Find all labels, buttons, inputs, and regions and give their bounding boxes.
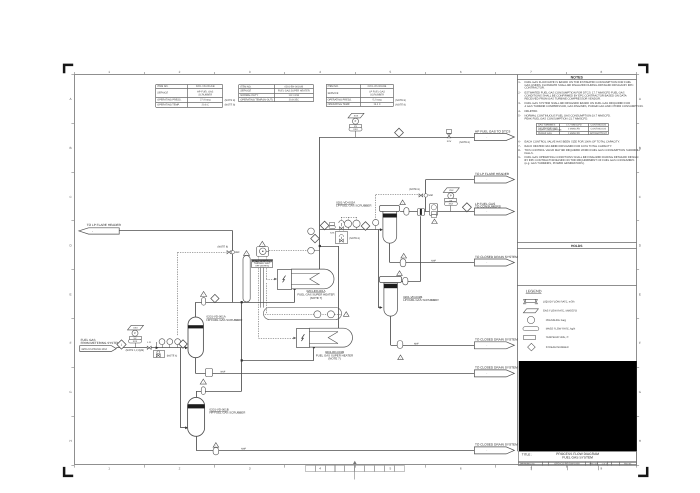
company logo redaction block — [519, 361, 637, 451]
svg-text:6: 6 — [460, 70, 462, 74]
svg-text:TO CLOSED DRAIN SYSTEM: TO CLOSED DRAIN SYSTEM — [475, 338, 518, 342]
vessel VD-001A HP fuel gas scrubber A — [188, 317, 203, 358]
svg-text:(e.g. GAS TURBINES, POWER GENE: (e.g. GAS TURBINES, POWER GENERATORS). — [525, 162, 585, 165]
pipe: scrubber B feed drop — [180, 348, 182, 428]
svg-text:OPERATING PRESS.: OPERATING PRESS. — [157, 99, 181, 102]
svg-text:ITEM NO.: ITEM NO. — [157, 85, 168, 88]
svg-text:PEAK FUEL GAS CONSUMPTION :21.: PEAK FUEL GAS CONSUMPTION :21.7 MMSCFD. — [525, 118, 589, 121]
svg-text:(NOTE 8): (NOTE 8) — [225, 99, 236, 102]
svg-text:LP FUEL GAS SCRUBBER: LP FUEL GAS SCRUBBER — [336, 204, 371, 208]
DTCS shutdown valve — [447, 130, 452, 134]
spec break — [156, 342, 158, 348]
signal: inlet PIC to flare bypass PCV — [177, 252, 179, 336]
letdown PIC/PI circles — [344, 220, 351, 227]
svg-text:OPERATING TEMP.: OPERATING TEMP. — [328, 103, 351, 106]
pipe: HP scrubber A drain to closed drain — [195, 357, 197, 373]
svg-text:SHT. NO.: SHT. NO. — [590, 463, 599, 466]
table fuel gas super heater — [239, 84, 314, 86]
svg-text:SERVICE: SERVICE — [240, 90, 251, 93]
svg-text:7-: 7- — [518, 145, 521, 148]
inlet PCV in box (NOTE 4) — [154, 351, 165, 358]
off-page arrow LP FUEL GAS TO CONSUMERS — [474, 208, 514, 215]
svg-text:20.8 C: 20.8 C — [202, 103, 209, 106]
svg-text:(NOTE 6): (NOTE 6) — [459, 141, 470, 144]
svg-text:LP FUEL GAS SCRUBBER: LP FUEL GAS SCRUBBER — [403, 298, 438, 302]
pipe: heater B inlet — [242, 360, 314, 362]
svg-text:(NOTE 4): (NOTE 4) — [167, 354, 178, 357]
svg-text:(NOTE 8): (NOTE 8) — [225, 104, 236, 107]
off-page arrow TO CLOSED DRAIN SYSTEM — [474, 259, 514, 266]
svg-text:GAS FLOW RATE, MMSCFD: GAS FLOW RATE, MMSCFD — [543, 310, 577, 313]
svg-text:(NOTE 1,2,3)(M): (NOTE 1,2,3)(M) — [126, 349, 145, 352]
svg-text:MASS FLOW RATE, kg/h: MASS FLOW RATE, kg/h — [546, 328, 576, 331]
off-page arrow TO CLOSED DRAIN SYSTEM — [474, 370, 514, 377]
svg-text:Rev.01: Rev.01 — [624, 463, 632, 466]
svg-text:5.2 barg: 5.2 barg — [372, 99, 382, 102]
letdown bypass box — [336, 232, 348, 244]
svg-text:5: 5 — [390, 467, 392, 471]
svg-text:XXV: XXV — [447, 140, 452, 143]
svg-text:6-: 6- — [518, 141, 521, 144]
svg-text:EACH HEATER HAS BEEN DESIGNED: EACH HEATER HAS BEEN DESIGNED FOR 100% T… — [525, 145, 613, 148]
svg-text:2-: 2- — [518, 91, 521, 94]
svg-text:ITEM NO.: ITEM NO. — [240, 85, 251, 88]
svg-text:NOTES: NOTES — [571, 75, 584, 79]
svg-text:FALLS.: FALLS. — [525, 152, 534, 155]
pipe: LP scrubber B drain to closed drain — [390, 316, 392, 345]
drawing border frame — [75, 75, 637, 465]
pipe: HP scrubber A feed entry — [185, 346, 188, 349]
LP scrubber B outlet valve — [397, 271, 403, 276]
svg-text:ITEM NO.: ITEM NO. — [328, 85, 339, 88]
svg-text:TO CONSUMERS: TO CONSUMERS — [475, 204, 501, 208]
svg-text:4: 4 — [319, 467, 321, 471]
svg-text:2: 2 — [179, 70, 181, 74]
svg-text:XXX: XXX — [353, 128, 358, 131]
svg-text:GAS TURBINES: GAS TURBINES — [538, 124, 556, 127]
svg-text:0201-VD-001A/B: 0201-VD-001A/B — [196, 85, 215, 88]
svg-text:GPD-CO-PR-DW-1004: GPD-CO-PR-DW-1004 — [82, 348, 108, 351]
svg-text:TO CLOSED DRAIN SYSTEM: TO CLOSED DRAIN SYSTEM — [475, 255, 518, 259]
svg-text:27.9 barg: 27.9 barg — [200, 99, 211, 102]
svg-text:NORMAL DUTY: NORMAL DUTY — [240, 94, 258, 97]
svg-text:9-: 9- — [518, 156, 521, 159]
graphic scale bar — [306, 466, 316, 472]
svg-text:F: F — [70, 341, 72, 345]
svg-text:NNF: NNF — [241, 447, 246, 450]
stream diamond HP header — [395, 128, 404, 137]
off-page arrow HP FUEL GAS TO DTCS — [474, 134, 514, 141]
svg-text:NNF: NNF — [235, 251, 240, 254]
svg-text:START CONSUMPTION: START CONSUMPTION — [538, 129, 562, 132]
LP-B drain valve — [397, 341, 403, 349]
svg-text:4-: 4- — [518, 110, 521, 113]
TDIC controller — [259, 241, 265, 246]
stream diamond 1 — [117, 340, 126, 349]
svg-text:3: 3 — [249, 467, 251, 471]
pipe: LP flare header line (left) — [119, 230, 233, 232]
svg-text:HP FUEL GAS SCRUBBER: HP FUEL GAS SCRUBBER — [207, 318, 243, 322]
svg-text:EACH CONTROL VALVE HAS BEEN SI: EACH CONTROL VALVE HAS BEEN SIZE FOR 100… — [525, 141, 621, 144]
stream diamond above overhead A — [211, 294, 219, 302]
svg-text:4: 4 — [319, 70, 321, 74]
holds panel — [517, 242, 637, 244]
LP consumers XV valve — [430, 204, 438, 216]
svg-text:TITLE :: TITLE : — [522, 453, 532, 457]
svg-text:1-: 1- — [518, 81, 521, 84]
svg-text:SCRUBBER: SCRUBBER — [370, 93, 384, 96]
pipe: LP scrubber A drain to closed drain — [389, 243, 391, 263]
svg-text:B: B — [70, 146, 72, 150]
pipe: vertical main HP gas riser (heater A outlet to HP header) — [319, 137, 321, 269]
svg-text:CONTINUOUS: CONTINUOUS — [591, 124, 607, 127]
svg-text:TO LP FLARE HEADER: TO LP FLARE HEADER — [87, 223, 122, 227]
LP scrubber A outlet silencer — [400, 200, 406, 205]
pipe: HP scrubber A overhead line — [196, 302, 295, 304]
pipe: HP fuel gas header to DTCS — [320, 137, 475, 139]
HP-A drain valve — [206, 369, 213, 377]
svg-text:0201-VD-002A/B: 0201-VD-002A/B — [368, 85, 387, 88]
svg-text:XXX: XXX — [354, 115, 359, 118]
svg-text:(NOTE 7): (NOTE 7) — [310, 296, 322, 300]
svg-text:0201-EH-001A/B: 0201-EH-001A/B — [284, 85, 303, 88]
table HP fuel gas scrubber — [156, 84, 223, 86]
notes consumption table — [536, 123, 608, 125]
svg-text:3: 3 — [249, 70, 251, 74]
svg-text:6: 6 — [460, 467, 462, 471]
svg-text:(NOTE 8): (NOTE 8) — [409, 188, 420, 191]
svg-text:SERVICE: SERVICE — [157, 92, 168, 95]
pipe: LP letdown / LP scrubber A feed line — [320, 229, 381, 231]
pipe: heater B outlet tie-in — [320, 246, 339, 248]
stream diamond LP consumers — [462, 203, 471, 212]
stream diamond 2 — [179, 340, 187, 348]
notes panel frame — [517, 75, 519, 452]
svg-text:CONTINUOUS: CONTINUOUS — [591, 128, 607, 131]
svg-text:(NOTE 8): (NOTE 8) — [218, 245, 229, 248]
svg-text:FUEL GAS SUPER HEATER: FUEL GAS SUPER HEATER — [278, 90, 310, 93]
svg-text:RECEIVED FROM GAS TURBINE COMP: RECEIVED FROM GAS TURBINE COMPRESSOR VEN… — [525, 97, 601, 100]
legend panel — [517, 285, 637, 287]
letdown PCV — [339, 220, 344, 223]
heater EH-001A fuel gas super heater A — [291, 269, 334, 289]
svg-text:8-: 8- — [518, 149, 521, 152]
svg-text:112.4 KW: 112.4 KW — [288, 94, 299, 97]
stream diamond LP feed — [361, 222, 370, 231]
svg-text:XXX: XXX — [449, 189, 454, 192]
instrument stack: inlet flow/pressure readout — [135, 339, 137, 348]
svg-text:TO CLOSED DRAIN SYSTEM: TO CLOSED DRAIN SYSTEM — [475, 443, 518, 447]
svg-text:H: H — [639, 439, 641, 443]
pipe: HP scrubber B drain to closed drain — [196, 436, 198, 450]
table LP fuel gas scrubber — [326, 84, 393, 86]
svg-text:OPERATING PRESS.: OPERATING PRESS. — [328, 99, 352, 102]
svg-text:5: 5 — [390, 70, 392, 74]
off-page arrow TO CLOSED DRAIN SYSTEM — [474, 342, 514, 349]
instrument stack: LP consumers readout — [450, 202, 452, 212]
signal: LP PSLL to NNF valve — [375, 195, 377, 220]
svg-text:F: F — [639, 341, 641, 345]
svg-text:3-: 3- — [518, 102, 521, 105]
svg-text:HP FUEL GAS SCRUBBER: HP FUEL GAS SCRUBBER — [210, 411, 246, 415]
svg-text:DELETED.: DELETED. — [525, 110, 539, 113]
svg-text:DRAWING No.: DRAWING No. — [520, 463, 536, 466]
svg-text:XXX: XXX — [133, 340, 138, 343]
pipe: fuel gas inlet line from metering — [116, 347, 185, 349]
svg-text:OPERATING TEMP.(IN-OUT): OPERATING TEMP.(IN-OUT) — [240, 98, 273, 101]
LP consumers inline valve — [418, 209, 425, 216]
outlet TE assembly — [264, 308, 342, 320]
stream diamond on riser tap — [320, 221, 329, 230]
svg-text:XXX: XXX — [449, 203, 454, 206]
electrical heater note box — [252, 260, 273, 268]
inlet PIT instruments — [159, 339, 165, 345]
LP-A drain valve — [401, 253, 407, 258]
svg-text:17.7 MMSCFD: 17.7 MMSCFD — [566, 124, 582, 127]
vessel VD-002A LP fuel gas scrubber A — [380, 206, 400, 212]
svg-text:2: 2 — [179, 467, 181, 471]
svg-text:2 MMSCFD: 2 MMSCFD — [568, 132, 580, 135]
vessel VD-001B HP fuel gas scrubber B — [188, 397, 205, 436]
pipe: LP scrubber B overhead — [401, 281, 421, 283]
svg-text:TEMPERATURE, C: TEMPERATURE, C — [546, 336, 569, 339]
svg-text:8: 8 — [600, 70, 602, 74]
svg-text:NNF: NNF — [221, 370, 226, 373]
svg-text:OFF (NOTE 5): OFF (NOTE 5) — [255, 265, 269, 268]
pipe: LP scrubber B feed drop — [378, 230, 380, 308]
svg-text:NNF: NNF — [431, 260, 436, 263]
heater EH-001B fuel gas super heater B — [309, 328, 352, 347]
svg-text:CONTRACTOR.: CONTRACTOR. — [525, 87, 545, 90]
corner crop marks — [64, 65, 73, 73]
off-page arrow TO LP FLARE HEADER — [474, 176, 514, 183]
svg-text:8: 8 — [600, 467, 602, 471]
svg-text:1: 1 — [108, 70, 110, 74]
svg-text:NNF: NNF — [414, 342, 419, 345]
svg-text:4 GAS TURBINE COMPRESSOR, GAS: 4 GAS TURBINE COMPRESSOR, GAS ENGINES, P… — [525, 105, 644, 108]
svg-text:STREAM NUMBER: STREAM NUMBER — [546, 346, 569, 349]
PSV on HP scrubber B overhead — [200, 379, 206, 384]
svg-text:1 of 1: 1 of 1 — [602, 463, 608, 466]
signal: outlet TE chain — [265, 314, 341, 316]
svg-text:HP FUEL GAS TO DTCS: HP FUEL GAS TO DTCS — [475, 129, 510, 133]
svg-text:NNF: NNF — [428, 194, 433, 197]
svg-text:LIQUID FLOW RATE, m3/h: LIQUID FLOW RATE, m3/h — [543, 300, 575, 303]
PSLL circle — [373, 219, 379, 225]
svg-text:THIS CONTROL VALVE MAY BE REQU: THIS CONTROL VALVE MAY BE REQUIRED WHEN … — [525, 149, 641, 152]
pipe: heater A inlet drop — [294, 289, 296, 302]
svg-text:-: - — [92, 229, 93, 233]
signal: PT to TDIC — [269, 250, 308, 252]
svg-text:GPD-CO-PR-DW-1008: GPD-CO-PR-DW-1008 — [554, 463, 580, 466]
svg-text:FROM METERING SYSTEM: FROM METERING SYSTEM — [81, 341, 121, 345]
svg-text:FUEL GAS SYSTEM: FUEL GAS SYSTEM — [562, 456, 593, 460]
svg-text:(NOTE 8): (NOTE 8) — [395, 103, 406, 106]
svg-text:LEGEND: LEGEND — [526, 290, 542, 294]
svg-text:SCRUBBER: SCRUBBER — [198, 93, 212, 96]
svg-text:TO CLOSED DRAIN SYSTEM: TO CLOSED DRAIN SYSTEM — [475, 366, 518, 370]
letdown PI circle — [308, 228, 315, 235]
svg-text:E: E — [70, 292, 72, 296]
instrument stack: HP header readout — [355, 127, 357, 137]
PSV on HP scrubber A overhead — [201, 292, 207, 297]
svg-text:PURGE GAS: PURGE GAS — [538, 132, 552, 135]
TI stack on LP feed — [330, 223, 335, 226]
off-page arrow TO CLOSED DRAIN SYSTEM — [474, 447, 514, 454]
signal: TDIC to heater B — [258, 256, 260, 338]
ruler tick marks and grid labels — [74, 72, 76, 75]
pipe: LP flare header line (right) — [426, 179, 475, 181]
svg-text:2 MMSCFD: 2 MMSCFD — [568, 128, 580, 131]
HP-B drain valve — [213, 443, 219, 448]
svg-text:PRESSURE barg: PRESSURE barg — [546, 319, 567, 322]
svg-text:XXX: XXX — [133, 327, 138, 330]
svg-text:7: 7 — [530, 70, 532, 74]
pipe: LP scrubber A feed entry — [380, 228, 383, 231]
stream diamond below — [311, 234, 320, 243]
svg-text:L.O.: L.O. — [147, 341, 152, 344]
svg-text:(NOTE 6): (NOTE 6) — [349, 237, 360, 240]
svg-text:SERVICE: SERVICE — [328, 92, 339, 95]
signal: letdown PIC dashes — [341, 217, 343, 222]
svg-text:HOLDS: HOLDS — [571, 244, 583, 248]
PT on riser — [308, 247, 315, 254]
svg-text:5-: 5- — [518, 115, 521, 118]
svg-text:XXX: XXX — [330, 232, 335, 235]
svg-text:OPERATING TEMP.: OPERATING TEMP. — [157, 103, 180, 106]
svg-text:19.4 C: 19.4 C — [373, 103, 380, 106]
svg-text:(NOTE 8): (NOTE 8) — [395, 99, 406, 102]
inline filter capsule — [244, 251, 250, 256]
svg-text:H: H — [69, 439, 71, 443]
title block — [519, 452, 637, 463]
svg-text:E: E — [639, 292, 641, 296]
svg-text:INTERMITTENT: INTERMITTENT — [590, 132, 608, 135]
svg-text:20.8-35C: 20.8-35C — [289, 98, 299, 101]
pipe: HP scrubber B overhead riser — [241, 302, 243, 391]
svg-text:7: 7 — [530, 467, 532, 471]
svg-text:(NOTE 7): (NOTE 7) — [328, 357, 340, 361]
svg-text:1: 1 — [108, 467, 110, 471]
vessel VD-002B LP fuel gas scrubber B — [380, 277, 402, 283]
signal: TDIC to heater A — [266, 256, 268, 279]
pipe: LP consumers line — [400, 211, 475, 213]
heater element power leads — [260, 268, 262, 308]
svg-text:TO LP FLARE HEADER: TO LP FLARE HEADER — [475, 172, 510, 176]
